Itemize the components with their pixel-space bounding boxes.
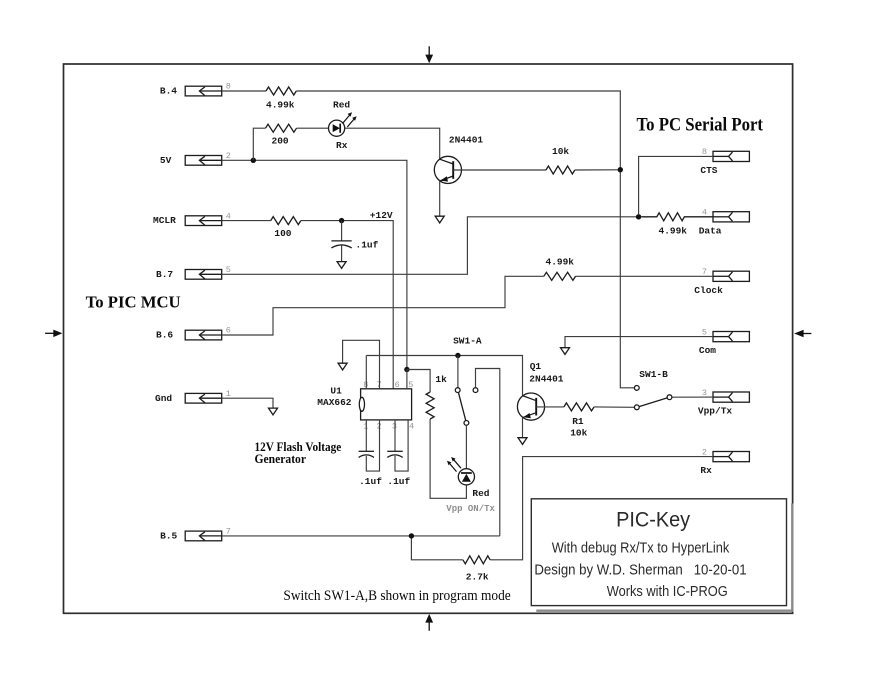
resistor 100 [271,217,301,240]
wire 100 to +12V corner down to U1 pin6 [301,221,393,389]
svg-text:Generator: Generator [255,451,307,466]
wire 200 to LED Rx [297,127,329,129]
svg-text:Data: Data [699,225,722,236]
svg-text:PIC-Key: PIC-Key [616,508,690,531]
net label +12V [370,210,393,221]
svg-text:4.99k: 4.99k [546,257,575,268]
svg-text:CTS: CTS [700,165,717,176]
capacitor .1uf (U1 pins 1-2) [359,420,383,487]
svg-text:B.4: B.4 [160,86,177,97]
svg-text:Red: Red [333,100,350,111]
svg-text:100: 100 [274,228,291,239]
label To PC Serial Port [637,116,764,136]
wire SW1-A rail (pin8 to Q1 collector) [366,356,522,396]
svg-text:10k: 10k [552,146,569,157]
svg-text:B.7: B.7 [156,269,173,280]
node junction 5V / 200 ohm branch [251,158,256,163]
node junction Data / CTS [636,214,641,219]
resistor 200 [266,124,297,146]
connector Rx (pin 2) [700,447,749,476]
resistor 10k (base) [546,146,575,174]
capacitor .1uf (U1 pins 3-4) [387,420,410,487]
label To PIC MCU [86,293,181,312]
svg-text:Rx: Rx [336,140,348,151]
svg-text:4: 4 [409,422,414,432]
top edge arrow marker [425,46,433,63]
svg-text:8: 8 [226,82,231,92]
wire Gnd stub [222,398,273,408]
capacitor .1uf (MCLR bypass) [331,221,378,262]
svg-text:With debug Rx/Tx to HyperLink: With debug Rx/Tx to HyperLink [552,541,730,557]
svg-text:2N4401: 2N4401 [529,374,564,385]
wire Clock resistor to connector [576,275,713,277]
svg-text:MCLR: MCLR [153,215,176,226]
ground (2N4401 emitter) [435,216,444,223]
wire B.6 path to Clock resistor [222,276,544,335]
wire SW1-A throw B to B.5 riser [476,369,500,536]
connector CTS (pin 8) [700,147,749,176]
resistor 4.99k (Clock) [544,257,576,281]
wire U1 pin7 to ground [343,340,380,389]
LED D2 Vpp ON/Tx (Red) [446,457,495,514]
connector Com (pin 5) [699,327,750,356]
U1 pin numbers bottom 1 2 3 4 [363,422,414,432]
title text PIC-Key [616,508,690,531]
svg-text:7: 7 [226,527,231,537]
ground (MCLR cap) [337,262,346,269]
svg-text:To PIC MCU: To PIC MCU [86,293,181,312]
connector B.4 (pin 8) [160,82,231,97]
svg-text:Design by W.D. Sherman 10-20: Design by W.D. Sherman 10-20-01 [534,562,746,578]
node junction 5V / pin5 / 1k [404,367,409,372]
resistor 1k [426,374,447,419]
svg-text:Vpp ON/Tx: Vpp ON/Tx [446,504,495,514]
node junction B.4 line / 10k [618,167,623,172]
wire pin5 drop [406,370,408,389]
title text With debug Rx/Tx to HyperLink [552,541,730,557]
svg-text:Switch SW1-A,B shown in progra: Switch SW1-A,B shown in program mode [283,588,511,604]
wire MCLR to resistor [222,220,271,222]
wire SW1-B pole to Vpp/Tx connector [672,396,713,398]
bottom edge arrow marker [425,614,433,631]
svg-text:B.5: B.5 [160,531,177,542]
op-amp/IC U1 MAX662 body [317,385,411,420]
U1 pin numbers top 8 7 6 5 [363,380,413,390]
transistor 2N4401 (upper) [434,135,483,217]
svg-text:2N4401: 2N4401 [449,135,484,146]
svg-text:5V: 5V [160,155,172,166]
svg-text:SW1-A: SW1-A [453,335,482,346]
wire transistor base to 10k [453,169,546,171]
wire Rx connector to 2.7k riser [490,457,713,560]
svg-text:8: 8 [702,147,707,157]
resistor R1 10k [564,403,594,439]
wire Com to ground [565,337,713,348]
svg-text:2: 2 [702,447,707,457]
wire LED to transistor collector [345,128,440,159]
node junction SW1-A rail [455,353,460,358]
switch SW1-A [453,335,482,425]
title text Design by W.D. Sherman 10-20-01 [534,562,746,578]
svg-text:Clock: Clock [694,285,723,296]
wire R1 to SW1-B throw [594,406,634,408]
wire 10k to junction [575,169,618,171]
svg-text:4.99k: 4.99k [659,226,688,237]
connector MCLR (pin 4) [153,211,231,226]
label 12V Flash Voltage Generator [255,439,342,466]
wire U1 pin8 up to SW1-A rail [365,356,367,389]
svg-text:MAX662: MAX662 [317,397,352,408]
svg-text:.1uf: .1uf [356,240,379,251]
connector Data (pin 4) [699,208,750,237]
svg-text:Rx: Rx [700,465,712,476]
connector Gnd (pin 1) [155,389,231,404]
svg-text:5: 5 [702,327,707,337]
ground (Q1 emitter) [518,438,527,445]
title text Works with IC-PROG [607,584,728,600]
svg-text:6: 6 [226,326,231,336]
svg-text:+12V: +12V [370,210,393,221]
resistor 4.99k (B.4 line) [266,87,296,111]
svg-text:R1: R1 [572,416,584,427]
wire B.4 to resistor [222,90,266,92]
svg-text:To PC Serial Port: To PC Serial Port [637,116,764,136]
title block box with shadow [531,499,793,612]
connector B.6 (pin 6) [156,326,231,341]
wire B.5 run to SW1-A riser corner [222,535,500,537]
svg-text:4: 4 [226,211,231,221]
svg-text:SW1-B: SW1-B [639,369,668,380]
resistor 2.7k [463,556,490,583]
svg-text:Com: Com [699,345,716,356]
border frame of schematic sheet [64,64,793,613]
svg-text:Works with IC-PROG: Works with IC-PROG [607,584,728,600]
wire CTS drop [639,156,713,214]
svg-text:200: 200 [272,136,289,147]
connector Vpp/Tx (pin 3) [698,388,750,417]
svg-text:10k: 10k [570,427,587,438]
svg-text:3: 3 [702,388,707,398]
connector 5V (pin 2) [160,151,231,166]
right edge arrow marker [794,330,811,338]
svg-text:6: 6 [395,380,400,390]
left edge arrow marker [45,330,62,338]
wire 1k bottom loop to LED Vpp [430,419,466,498]
svg-text:.1uf: .1uf [387,476,410,487]
svg-text:5: 5 [408,380,413,390]
svg-text:2: 2 [226,151,231,161]
label Switch SW1-A,B shown in program mode [283,588,511,604]
wire junction to 1k [407,370,430,393]
wire 5V junction up to 200 ohm [253,128,265,160]
ground (Com) [561,348,570,355]
node junction MCLR / cap [339,218,344,223]
svg-text:B.6: B.6 [156,330,173,341]
resistor 4.99k (Data) [641,213,713,237]
svg-text:4: 4 [702,208,707,218]
svg-text:1k: 1k [435,374,447,385]
transistor Q1 2N4401 [517,361,563,437]
svg-text:5: 5 [226,265,231,275]
svg-text:Vpp/Tx: Vpp/Tx [698,406,733,417]
connector B.5 (pin 7) [160,527,231,542]
connector B.7 (pin 5) [156,265,231,280]
node junction B.5 / 2.7k [409,533,414,538]
svg-text:2.7k: 2.7k [466,571,489,582]
svg-text:7: 7 [702,267,707,277]
svg-text:U1: U1 [330,385,342,396]
wire Q1 base to R1 [536,406,564,408]
svg-text:Gnd: Gnd [155,393,172,404]
switch SW1-B [634,369,672,410]
wire B.7 to riser and over to Data junction [222,217,636,274]
svg-text:4.99k: 4.99k [266,100,295,111]
wire B.4 resistor to corner and down to SW1-B throw [296,91,634,388]
svg-text:Q1: Q1 [530,361,542,372]
wire 5V feed [222,160,407,369]
LED D1 Rx (Red) [329,100,357,151]
wire SW1-A pole down to LED Vpp [465,425,467,469]
connector Clock (pin 7) [694,267,749,296]
wire 2.7k to B.5 junction [411,536,463,560]
svg-text:.1uf: .1uf [359,476,382,487]
svg-text:Red: Red [472,488,489,499]
ground (Gnd pin) [269,408,278,415]
ground (U1 pin7) [338,363,347,370]
svg-text:1: 1 [226,389,231,399]
